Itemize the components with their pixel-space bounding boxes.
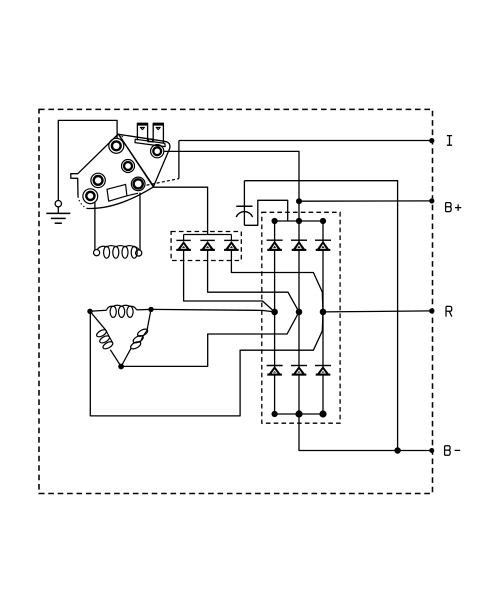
node bottom 2 xyxy=(295,410,302,417)
capacitor C1 curved plate xyxy=(236,212,252,217)
trio common line xyxy=(184,234,232,236)
diode D7 xyxy=(176,240,191,250)
rectifier top bus xyxy=(275,220,323,222)
node mid 2 xyxy=(296,309,303,316)
label B- xyxy=(445,446,451,456)
wire capacitor to rectifier xyxy=(244,200,287,225)
stator coil right xyxy=(136,328,148,338)
slot tail xyxy=(127,193,138,196)
wire B+ rail xyxy=(299,200,432,202)
wire R xyxy=(323,311,432,312)
spade terminal blade 2 xyxy=(153,123,163,143)
regulator bottom edge xyxy=(87,187,154,209)
label R xyxy=(446,306,452,316)
rectifier dashed box xyxy=(262,212,340,423)
trio diode stubs xyxy=(183,235,185,241)
rectifier bottom bus xyxy=(275,413,323,415)
regulator hidden top vertex dotted xyxy=(117,133,124,137)
wire B+ from regulator xyxy=(164,151,299,221)
regulator diagonal edge xyxy=(118,134,153,187)
node top 1 xyxy=(272,218,278,224)
field lead 2 xyxy=(139,193,141,250)
ground xyxy=(57,207,59,213)
diode D5 xyxy=(291,366,307,376)
regulator eyelet E6 xyxy=(131,177,145,191)
capacitor C1 top lead xyxy=(243,181,245,226)
trio lead 3 xyxy=(231,251,323,312)
diode D4 xyxy=(267,366,283,376)
label I xyxy=(447,136,452,146)
field terminal circle right xyxy=(136,250,142,256)
connector base plate xyxy=(135,139,165,146)
phase C wire xyxy=(90,311,323,416)
phase A wire xyxy=(151,309,275,312)
stator coil left xyxy=(95,328,107,338)
regulator eyelet E4 xyxy=(91,173,105,187)
node top 3 xyxy=(320,218,326,224)
regulator U1 body outline xyxy=(71,134,119,197)
regulator eyelet E3 xyxy=(122,160,135,173)
wire regulator top to ground xyxy=(58,120,117,200)
diode D2 xyxy=(291,240,307,250)
phase B wire xyxy=(121,312,299,367)
field terminal circle left xyxy=(94,250,100,256)
label B+ xyxy=(446,203,452,212)
ground terminal circle xyxy=(55,201,61,207)
regulator triangle plate xyxy=(119,134,170,186)
diode D1 xyxy=(267,240,283,250)
node B+ xyxy=(429,198,434,203)
regulator eyelet E1 xyxy=(109,138,124,153)
trio lead 2 xyxy=(208,251,299,312)
node bottom 1 xyxy=(272,411,278,417)
diode trio dashed box xyxy=(171,232,241,261)
diode D9 xyxy=(224,240,239,250)
node top 2 xyxy=(296,218,302,224)
node I xyxy=(429,138,434,143)
field lead 1 xyxy=(94,202,96,249)
node mid 1 xyxy=(271,309,278,316)
stator node S1 xyxy=(87,309,92,314)
wire B- rail xyxy=(299,414,432,451)
node R xyxy=(429,308,434,313)
node B- xyxy=(429,448,434,453)
dashed link regulator to I wire xyxy=(147,179,179,186)
trio lead 1 xyxy=(184,251,275,312)
wire capacitor to B- xyxy=(244,181,397,451)
regulator slot xyxy=(107,184,127,201)
stator coil top xyxy=(110,306,116,317)
node bottom 3 xyxy=(319,410,326,417)
stator node S2 xyxy=(148,307,153,312)
capacitor C1 plate xyxy=(236,205,252,207)
diode D6 xyxy=(315,366,331,376)
diode D8 xyxy=(200,240,215,250)
terminal I wire xyxy=(179,140,432,142)
field coil L1 xyxy=(104,246,110,258)
connector center tab xyxy=(148,139,152,142)
spade terminal blade 1 xyxy=(137,123,147,142)
regulator eyelet E2 xyxy=(151,145,164,158)
regulator hidden corner dotted xyxy=(78,197,87,209)
regulator eyelet E5 xyxy=(83,189,98,204)
rectifier column 3 xyxy=(322,221,324,414)
stator node S3 xyxy=(118,364,124,370)
outer dashed alternator case boundary xyxy=(39,109,433,493)
terminal I lead-down xyxy=(178,141,180,179)
rectifier column 2 xyxy=(298,221,300,414)
node mid 3 xyxy=(320,309,327,316)
node B+ junction xyxy=(296,198,302,204)
node B- junction xyxy=(394,447,400,453)
diode D3 xyxy=(315,240,331,250)
trio output wire to regulator xyxy=(153,187,208,234)
rectifier column 1 xyxy=(274,221,276,414)
